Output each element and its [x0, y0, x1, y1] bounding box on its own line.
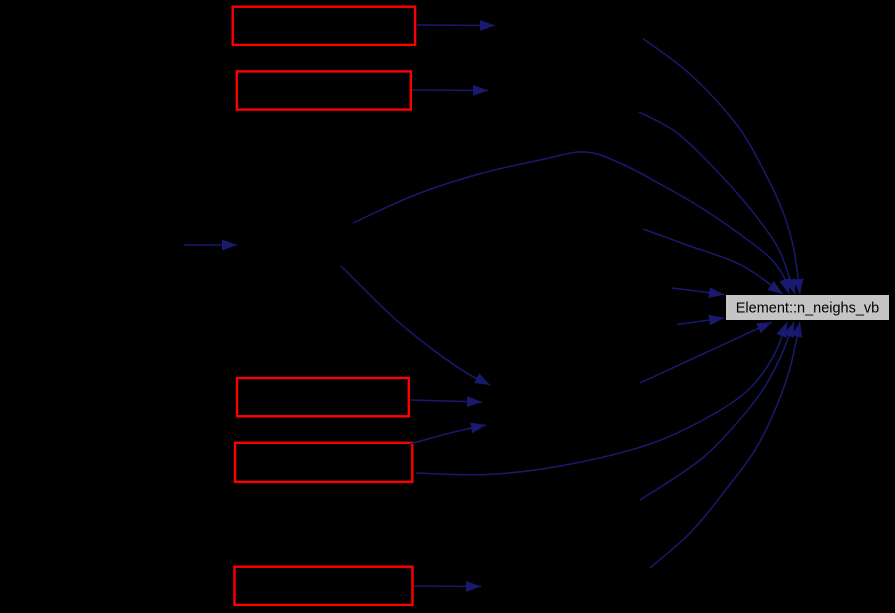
node box N6 (red, truncated caller) — [235, 567, 413, 605]
edge short arrow P2 to grey node — [677, 318, 724, 325]
node box N5 (red, truncated caller) — [235, 443, 412, 482]
edge curve A from M1 to grey node — [643, 39, 800, 295]
edge curve from M4 to grey node — [650, 322, 800, 568]
edge curve D from M5 to grey node — [643, 229, 783, 294]
edge curve from M6 to grey node — [640, 322, 794, 500]
edge N3 to M3 (diagonal down) — [341, 266, 490, 385]
edge line from M3 to grey node — [640, 322, 772, 383]
edge N2 to M2 — [412, 89, 488, 92]
svg-text:Element::n_neighs_vb: Element::n_neighs_vb — [736, 301, 880, 317]
edge N1 to M1 — [417, 24, 495, 27]
edge short arrow P1 to grey node — [672, 288, 725, 295]
node box N2 (red, truncated caller) — [237, 71, 411, 109]
edge curve C from N3 to grey node — [353, 152, 789, 294]
edge N4 to M3 — [411, 400, 483, 402]
edge N6 to M4 — [414, 585, 482, 588]
node Element::n_neighs_vb (current, grey) — [726, 295, 889, 320]
node box N1 (red, truncated caller) — [233, 7, 415, 45]
edge curve B from M2 to grey node — [639, 112, 795, 294]
node box N4 (red, truncated caller) — [237, 378, 409, 416]
edge N5 to M3 (diagonal up) — [410, 425, 486, 444]
edge arrow into N3 — [184, 244, 237, 246]
edge curve from N5 to grey node — [416, 322, 787, 475]
